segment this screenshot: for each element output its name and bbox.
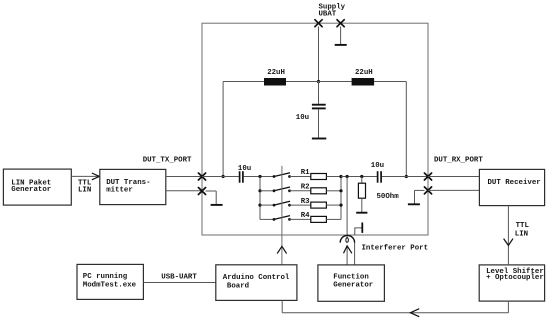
svg-text:+ Optocoupler: + Optocoupler bbox=[486, 274, 544, 282]
node left bus r2 bbox=[258, 189, 261, 192]
resistor R1 bbox=[311, 174, 327, 180]
arrow into DUT transmitter bbox=[92, 173, 100, 180]
svg-text:R4: R4 bbox=[301, 212, 310, 220]
wire R1 to right bus bbox=[326, 176, 341, 178]
box DUT Receiver bbox=[479, 169, 544, 205]
wire LIN gen to DUT transmitter bbox=[71, 175, 98, 177]
wire cap stub top bbox=[318, 82, 320, 104]
box Arduino Control Board bbox=[216, 265, 297, 301]
arrow interferer up bbox=[344, 246, 352, 253]
wire right port gnd stub bbox=[414, 190, 416, 203]
wire feedback horizontal bbox=[282, 312, 508, 314]
arrow down to level shifter bbox=[504, 239, 513, 246]
ground right port bbox=[408, 203, 420, 205]
resistor R3 bbox=[311, 202, 327, 208]
port X DUT_TX_PORT signal bbox=[198, 173, 205, 180]
wire left bus bbox=[259, 177, 261, 220]
wire right bus bbox=[340, 177, 342, 220]
svg-text:Generator: Generator bbox=[11, 186, 51, 194]
wire interferer pin bbox=[346, 177, 348, 238]
node right bus r3 bbox=[339, 204, 342, 207]
svg-text:UBAT: UBAT bbox=[319, 10, 337, 18]
svg-text:50Ohm: 50Ohm bbox=[377, 193, 400, 201]
wire interferer shaft bbox=[346, 246, 348, 265]
wire S1 to R1 bbox=[290, 176, 311, 178]
box LIN Paket Generator bbox=[3, 169, 71, 205]
wire S3 to R3 bbox=[290, 204, 311, 206]
resistor R2 bbox=[311, 188, 327, 194]
inductor L2 22uH bbox=[352, 78, 375, 86]
wire 50ohm stub bottom bbox=[361, 198, 363, 212]
wire right port gnd horiz bbox=[415, 189, 425, 191]
ground supply bbox=[335, 44, 347, 46]
wire r3 stub left bbox=[260, 204, 274, 206]
switch S2 right contact bbox=[288, 189, 291, 192]
arrow control up bbox=[277, 246, 286, 253]
wire interferer shield bbox=[354, 243, 356, 265]
switch S3 left contact bbox=[273, 204, 276, 207]
svg-text:10u: 10u bbox=[371, 162, 384, 170]
port X DUT_RX_PORT ground bbox=[424, 187, 431, 194]
capacitor 10u mid plate bottom bbox=[312, 107, 326, 109]
port X supply ground bbox=[337, 20, 344, 27]
wire inductor rail mid bbox=[286, 81, 352, 83]
wire 50ohm stub top bbox=[361, 177, 363, 184]
svg-text:ModmTest.exe: ModmTest.exe bbox=[83, 281, 137, 289]
wire feedback down bbox=[507, 301, 509, 313]
svg-text:TTL: TTL bbox=[516, 222, 530, 230]
svg-text:Function: Function bbox=[333, 274, 368, 282]
node right branch junction bbox=[405, 175, 408, 178]
inductor L1 22uH bbox=[264, 78, 286, 86]
svg-text:Board: Board bbox=[227, 283, 249, 291]
wire RX high bbox=[428, 176, 479, 178]
wire R2 to right bus bbox=[326, 190, 341, 192]
svg-text:22uH: 22uH bbox=[355, 69, 373, 77]
switch S1 left contact bbox=[273, 175, 276, 178]
port X supply UBAT bbox=[315, 20, 322, 27]
node interferer tap bbox=[346, 175, 349, 178]
svg-text:PC running: PC running bbox=[83, 273, 128, 281]
switch S4 right contact bbox=[288, 218, 291, 221]
wire USB-UART bbox=[143, 282, 215, 284]
wire S4 to R4 bbox=[290, 218, 311, 220]
capacitor C-TX 10u plate right bbox=[242, 171, 244, 183]
wire left port gnd horiz bbox=[206, 190, 217, 192]
svg-text:Arduino Control: Arduino Control bbox=[223, 274, 290, 282]
svg-text:22uH: 22uH bbox=[267, 69, 285, 77]
wire left branch down bbox=[222, 82, 224, 177]
node left bus r3 bbox=[258, 204, 261, 207]
ground 50ohm bbox=[356, 212, 367, 214]
interferer connector shell arc bbox=[340, 235, 354, 242]
wire bottom gnd bend bbox=[355, 228, 362, 235]
svg-text:LIN: LIN bbox=[515, 230, 528, 238]
wire S2 to R2 bbox=[290, 190, 311, 192]
node right bus top bbox=[339, 175, 342, 178]
svg-text:Interferer Port: Interferer Port bbox=[362, 244, 429, 252]
wire r4 stub left bbox=[260, 218, 274, 220]
wire feedback up to Arduino bbox=[281, 300, 283, 312]
capacitor C-RX 10u plate right bbox=[380, 171, 382, 183]
interferer pin socket bbox=[346, 238, 349, 243]
switch S3 right contact bbox=[288, 204, 291, 207]
wire row1 b bbox=[244, 176, 274, 178]
svg-text:mitter: mitter bbox=[106, 187, 133, 195]
box DUT Transmitter bbox=[100, 169, 166, 204]
switch S2 left contact bbox=[273, 189, 276, 192]
wire row1 a bbox=[202, 176, 239, 178]
wire supply ground stub bbox=[340, 27, 342, 45]
switch S4 left contact bbox=[273, 218, 276, 221]
ground left port bbox=[211, 204, 223, 206]
ground rotated bar bbox=[361, 223, 363, 233]
ground mid cap bbox=[312, 138, 326, 140]
capacitor 10u mid plate top bbox=[312, 104, 326, 106]
wire R3 to right bus bbox=[326, 204, 341, 206]
resistor R4 bbox=[311, 216, 327, 222]
svg-text:DUT_RX_PORT: DUT_RX_PORT bbox=[434, 157, 483, 165]
node right bus r2 bbox=[339, 189, 342, 192]
wire DUT TX out low bbox=[166, 190, 202, 192]
switch S1 right contact bbox=[288, 175, 291, 178]
node LC center junction bbox=[317, 80, 320, 83]
svg-text:DUT_TX_PORT: DUT_TX_PORT bbox=[143, 157, 192, 165]
switch S4 blade bbox=[274, 216, 290, 220]
wire DUT TX out high bbox=[166, 176, 202, 178]
svg-text:R2: R2 bbox=[301, 184, 310, 192]
arrow feedback left bbox=[410, 309, 419, 317]
capacitor C-TX 10u plate left bbox=[239, 171, 241, 183]
svg-text:USB-UART: USB-UART bbox=[161, 273, 197, 281]
wire row1 c bbox=[341, 176, 377, 178]
wire RX low bbox=[428, 189, 479, 191]
box Level Shifter + Optocoupler bbox=[479, 265, 544, 301]
wire r2 stub left bbox=[260, 190, 274, 192]
switch S1 blade bbox=[274, 173, 290, 177]
node left bus top bbox=[258, 175, 261, 178]
wire supply down bbox=[318, 27, 320, 82]
test fixture boundary box bbox=[202, 23, 428, 235]
wire RX to level shifter bbox=[507, 206, 509, 265]
box Function Generator bbox=[318, 265, 385, 301]
port X DUT_RX_PORT signal bbox=[424, 173, 431, 180]
svg-text:Generator: Generator bbox=[333, 282, 373, 290]
svg-text:10u: 10u bbox=[296, 114, 309, 122]
wire row1 d bbox=[382, 176, 428, 178]
wire inductor rail left bbox=[223, 81, 264, 83]
box PC running ModmTest.exe bbox=[77, 264, 143, 299]
wire left port gnd stub bbox=[215, 191, 217, 204]
port X DUT_TX_PORT ground bbox=[198, 188, 205, 195]
node left branch junction bbox=[222, 175, 225, 178]
node 50ohm tap bbox=[360, 175, 363, 178]
svg-text:R3: R3 bbox=[301, 198, 310, 206]
svg-text:DUT Trans-: DUT Trans- bbox=[106, 179, 150, 187]
svg-text:LIN: LIN bbox=[78, 186, 91, 194]
svg-text:R1: R1 bbox=[301, 169, 310, 177]
wire right branch down bbox=[405, 82, 407, 177]
resistor 50Ohm bbox=[358, 183, 365, 198]
switch S3 blade bbox=[274, 201, 290, 205]
svg-text:DUT Receiver: DUT Receiver bbox=[488, 179, 541, 187]
wire inductor rail right bbox=[374, 81, 406, 83]
wire cap stub bottom bbox=[318, 109, 320, 137]
switch S2 blade bbox=[274, 187, 290, 191]
control line from Arduino bbox=[281, 166, 283, 265]
wire R4 to right bus bbox=[326, 218, 341, 220]
capacitor C-RX 10u plate left bbox=[377, 171, 379, 183]
